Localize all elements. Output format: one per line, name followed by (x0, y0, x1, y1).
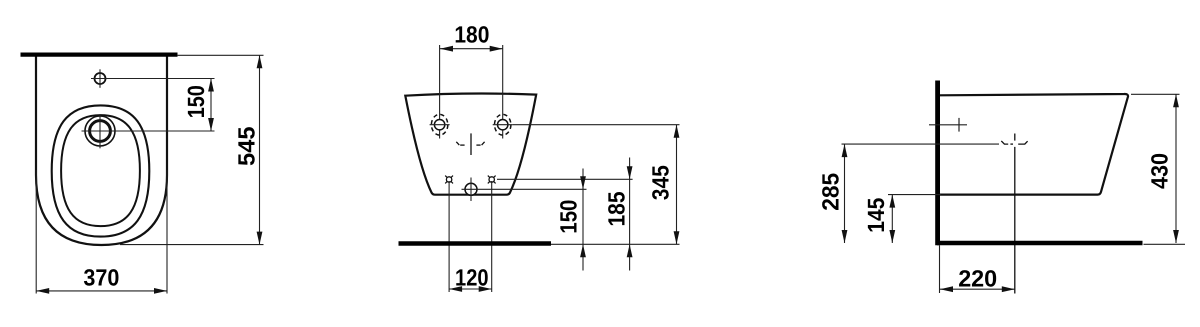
floor line middle (399, 241, 552, 246)
120 extension lines (448, 181, 450, 292)
fixing hole lower-left (445, 176, 453, 184)
svg-text:345: 345 (648, 165, 674, 200)
545 top extension (177, 54, 264, 56)
285 extension (842, 143, 1000, 145)
svg-text:370: 370 (83, 265, 119, 291)
545 bottom extension (120, 244, 264, 246)
svg-text:220: 220 (958, 266, 997, 292)
dimension 120 (449, 265, 492, 292)
faucet hole (95, 73, 106, 84)
dimension 545 (234, 55, 263, 244)
bottom edge extension (145) (888, 194, 941, 196)
svg-text:430: 430 (1147, 153, 1173, 189)
dimension 185 (604, 158, 633, 271)
top rim thick bar (21, 52, 178, 56)
floor line right (937, 241, 1143, 246)
svg-text:545: 545 (234, 126, 260, 166)
bidet profile (940, 94, 1129, 195)
dimension 145 (863, 195, 895, 243)
dimension 430 (1147, 94, 1179, 243)
drain circle (85, 116, 115, 146)
svg-text:180: 180 (454, 21, 489, 47)
430 top extension (1131, 93, 1180, 95)
water supply cross (929, 118, 967, 132)
floor extension thin (551, 243, 680, 245)
basin inner rim (61, 115, 140, 226)
bolt hole left (430, 114, 450, 135)
370 extension lines (35, 170, 37, 294)
drain hole bottom (465, 178, 477, 202)
dimension 220 (940, 266, 1015, 293)
345 extension (513, 124, 680, 126)
body outline (405, 94, 536, 195)
dimension 150 (left view) (183, 79, 214, 132)
svg-text:285: 285 (818, 173, 844, 211)
drain crosshair (99, 114, 101, 148)
centre mark dashed cross (456, 133, 484, 155)
svg-text:120: 120 (455, 265, 489, 291)
dimension 150 (middle) (556, 169, 586, 271)
basin outer rim (52, 105, 150, 236)
body outline (36, 55, 167, 245)
dimension 285 (818, 144, 848, 243)
bolt hole right (493, 114, 513, 135)
svg-text:185: 185 (604, 192, 630, 227)
svg-text:150: 150 (556, 200, 582, 234)
bolt hole extension/centre lines (439, 45, 441, 139)
150 extension (drain to dim) (462, 188, 587, 190)
wall extension below floor (220 left) (939, 246, 941, 294)
430 bottom extension (1144, 243, 1186, 245)
dimension 345 (648, 125, 680, 245)
faucet crosshair + extension to 150 dim (99, 69, 101, 88)
185 extension (497, 178, 633, 180)
fixing hole lower-right (488, 176, 496, 184)
svg-text:150: 150 (183, 85, 209, 118)
dimension 180 (440, 21, 503, 51)
drain centreline dashed cross (1001, 134, 1027, 294)
svg-text:145: 145 (863, 198, 889, 233)
dimension 370 (36, 265, 167, 294)
wall line (935, 81, 940, 246)
